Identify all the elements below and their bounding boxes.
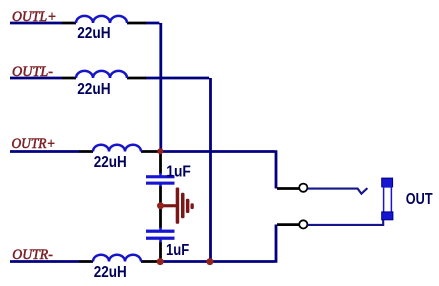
svg-text:1uF: 1uF (166, 242, 189, 259)
svg-text:1uF: 1uF (166, 164, 191, 181)
svg-text:OUT: OUT (406, 191, 433, 208)
svg-text:OUTL+: OUTL+ (12, 9, 57, 25)
svg-text:OUTR+: OUTR+ (12, 136, 56, 152)
svg-text:22uH: 22uH (94, 264, 127, 281)
svg-text:22uH: 22uH (94, 154, 127, 171)
svg-text:OUTR-: OUTR- (12, 247, 53, 263)
svg-text:22uH: 22uH (77, 81, 110, 98)
svg-text:OUTL-: OUTL- (12, 64, 53, 80)
svg-text:22uH: 22uH (77, 25, 110, 42)
